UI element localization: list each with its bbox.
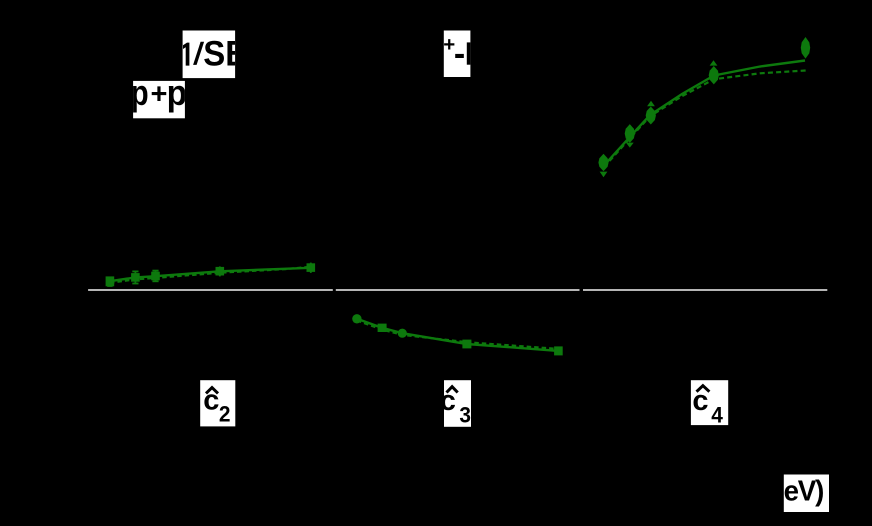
- panel c2 point 4: [216, 266, 225, 276]
- panel c4 point 3: [646, 101, 656, 125]
- svg-text:eV): eV): [784, 475, 824, 506]
- panel c2 point 2: [131, 271, 140, 283]
- panel c4 point 4: [709, 60, 719, 84]
- panel c3 dashed fit line: [357, 321, 558, 349]
- panel c2 point 5: [307, 263, 316, 273]
- panel c3 solid line: [357, 319, 558, 351]
- label c-hat-3: [440, 385, 471, 428]
- axis baseline segment panel 1: [88, 289, 333, 291]
- white label box superscript plus-minus: [444, 31, 471, 78]
- white label box "1/S": [183, 31, 236, 79]
- panel c3 point 1: [352, 314, 361, 323]
- text fragment plus: [443, 33, 455, 56]
- text fragment 1/S: [183, 35, 249, 74]
- text fragment eV): [784, 475, 824, 506]
- white label box c2: [200, 380, 235, 426]
- panel c4 point 1: [598, 154, 608, 177]
- axis baseline segment panel 2: [336, 289, 580, 291]
- label c-hat-2: [203, 385, 230, 427]
- panel c4 dashed fit line: [604, 71, 806, 168]
- panel c4 point 2: [625, 124, 635, 148]
- svg-text:3: 3: [459, 403, 471, 428]
- axis baseline segment panel 3: [583, 289, 827, 291]
- white label box eV): [784, 475, 829, 513]
- label c-hat-4: [692, 385, 723, 427]
- svg-text:2: 2: [219, 402, 231, 427]
- svg-text:4: 4: [711, 403, 723, 428]
- svg-text:-: -: [454, 35, 465, 73]
- panel c2 point 3: [151, 271, 160, 282]
- panel c2 point 1: [106, 276, 115, 287]
- text fragment p+p: [131, 72, 187, 113]
- panel c2 solid line: [110, 268, 311, 281]
- text fragment minus: [454, 35, 465, 73]
- white label box c4: [691, 380, 728, 425]
- panel c3 point 2: [378, 324, 387, 332]
- panel c4 solid line: [604, 61, 806, 167]
- white label box c3: [444, 380, 471, 427]
- panel c3 point 5: [554, 346, 563, 355]
- panel c3 point 3: [398, 329, 407, 338]
- panel c3 point 4: [462, 340, 471, 349]
- panel c2 dashed fit line: [110, 267, 311, 283]
- text fragment letter stem: [467, 42, 472, 64]
- white label box p+p: [133, 81, 185, 118]
- svg-text:+: +: [151, 79, 168, 111]
- panel c4 point 5: [801, 37, 810, 59]
